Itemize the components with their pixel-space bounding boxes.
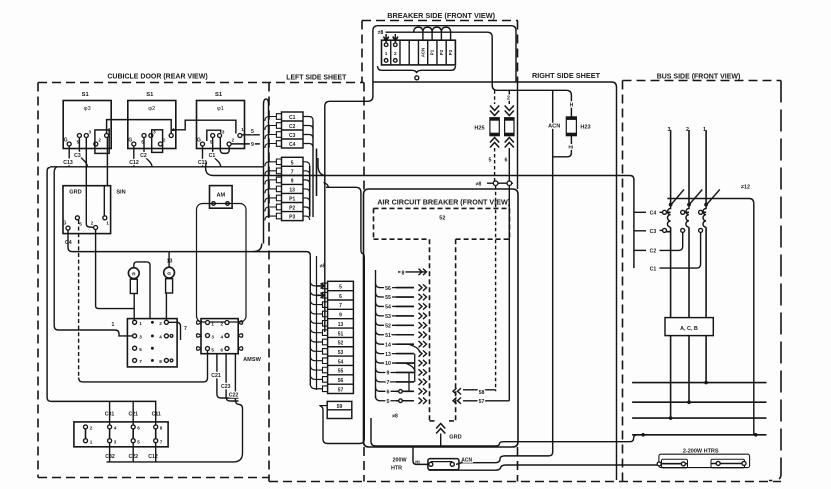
svg-text:2: 2 <box>159 321 162 326</box>
svg-text:1: 1 <box>112 322 115 328</box>
svg-text:S1: S1 <box>215 92 223 98</box>
wire #8 junction circles <box>487 181 513 186</box>
svg-text:≠8: ≠8 <box>378 30 384 36</box>
wire 56 into breaker <box>385 284 426 291</box>
CT coil phase 1 <box>703 203 708 318</box>
svg-text:2: 2 <box>163 138 166 143</box>
svg-text:C12: C12 <box>129 160 139 166</box>
svg-text:10: 10 <box>385 361 391 367</box>
svg-text:A, C, B: A, C, B <box>680 326 698 332</box>
svg-text:6: 6 <box>339 294 342 300</box>
svg-text:5: 5 <box>211 347 214 352</box>
svg-text:2: 2 <box>221 321 224 326</box>
wire C11 G lead to bus <box>202 146 204 167</box>
svg-text:H: H <box>570 103 574 109</box>
wire #8 bus parallel segment <box>316 256 318 390</box>
wire inside GRD box to terminal 2 <box>86 186 93 228</box>
svg-text:51: 51 <box>385 333 391 339</box>
lamp R <box>128 268 139 294</box>
internal jumper 14-13 arc <box>408 344 420 352</box>
label C1 tap and wire <box>650 233 701 273</box>
wire from GRD terminal 2 down <box>95 230 97 306</box>
svg-text:2: 2 <box>232 138 235 143</box>
svg-text:ACN: ACN <box>548 124 560 130</box>
number 8 bus vertical with fan to lower strip <box>310 256 322 389</box>
wire #12 riser down right side <box>753 204 755 435</box>
wire GRD G terminal down and right (lamp supply) <box>68 230 310 255</box>
wire 58 from right <box>453 388 496 396</box>
internal jumper 10-9 arc <box>405 363 415 371</box>
switch phi3 contact bridge box <box>95 130 109 154</box>
svg-text:3: 3 <box>668 127 671 133</box>
svg-text:BREAKER SIDE (FRONT VIEW): BREAKER SIDE (FRONT VIEW) <box>387 11 495 20</box>
wire ground return along ACB bottom <box>371 418 760 446</box>
svg-text:H25: H25 <box>474 126 484 132</box>
wire lamp R base to connector pin 1 <box>133 294 135 321</box>
svg-text:G: G <box>197 138 201 144</box>
svg-text:5: 5 <box>251 129 254 135</box>
wire 53 into breaker <box>385 313 426 320</box>
svg-text:C1: C1 <box>289 115 296 121</box>
svg-text:C2: C2 <box>140 153 147 159</box>
junction circle row 5 <box>399 399 403 403</box>
svg-text:14: 14 <box>385 342 391 348</box>
svg-text:7: 7 <box>184 326 187 332</box>
svg-text:P3: P3 <box>448 49 453 55</box>
svg-text:9: 9 <box>291 178 294 184</box>
connector block TB2 bottom <box>74 422 168 447</box>
svg-text:C12: C12 <box>148 454 158 460</box>
svg-text:2: 2 <box>686 127 689 133</box>
svg-text:13: 13 <box>289 188 295 194</box>
svg-text:6: 6 <box>137 426 140 431</box>
svg-text:C4: C4 <box>650 211 657 217</box>
arrow into lower strip cell 6 <box>317 293 325 298</box>
svg-text:CUBICLE DOOR (REAR VIEW): CUBICLE DOOR (REAR VIEW) <box>107 74 207 81</box>
svg-text:RIGHT SIDE SHEET: RIGHT SIDE SHEET <box>532 71 601 80</box>
svg-text:51: 51 <box>338 331 344 337</box>
wire 9 into breaker <box>387 369 427 376</box>
svg-text:3: 3 <box>211 334 214 339</box>
wires from TB2 bottom pins to lower bus <box>109 443 111 462</box>
wire 5 dashed down to 58 <box>495 186 497 391</box>
svg-text:G: G <box>63 220 67 226</box>
ground GRD arrows at stem bottom <box>436 424 462 447</box>
svg-text:52: 52 <box>338 341 344 347</box>
svg-text:5: 5 <box>339 285 342 291</box>
svg-text:S1: S1 <box>146 92 154 98</box>
meter AM box <box>210 186 233 209</box>
svg-text:7: 7 <box>139 359 142 364</box>
svg-text:φ1: φ1 <box>217 106 224 112</box>
wire outer loop breaker side <box>325 26 516 332</box>
wire 6 into breaker <box>387 388 427 395</box>
breaker 52 dashed outline with T stem <box>374 208 510 421</box>
terminal strip lower (5..57) <box>323 281 354 393</box>
connector block TB1 8-pin <box>127 319 177 367</box>
svg-text:P2: P2 <box>439 49 444 55</box>
wire 6 down to 57 <box>508 186 510 401</box>
svg-text:4: 4 <box>221 334 224 339</box>
wire C21 from AMSW <box>217 354 239 398</box>
boundary: breaker side dashed box top <box>362 21 518 83</box>
wire 1 into connector TB1 <box>54 167 132 336</box>
wire C22 from AMSW <box>107 354 243 462</box>
svg-text:H23: H23 <box>580 125 590 131</box>
svg-text:5: 5 <box>291 160 294 166</box>
svg-text:1: 1 <box>703 127 706 133</box>
svg-text:≠8: ≠8 <box>476 182 482 188</box>
wire #12 with diagonals to CT primaries <box>667 190 754 205</box>
svg-text:C23: C23 <box>221 384 231 390</box>
svg-text:9: 9 <box>339 313 342 319</box>
phase wire 2 <box>688 130 690 205</box>
CT tap circles <box>663 210 707 232</box>
wire 55 into breaker <box>385 294 426 301</box>
cubicle bus wire under switches <box>47 167 263 171</box>
wire 13 into breaker <box>385 350 426 357</box>
wire from phi3 terminal1 down to GRD box <box>106 138 108 186</box>
switch phi1 contact bridge <box>207 130 221 141</box>
svg-text:ACN: ACN <box>421 48 426 58</box>
svg-text:G: G <box>167 271 171 277</box>
svg-text:2: 2 <box>91 221 94 226</box>
wire 54 into breaker <box>385 303 426 310</box>
wire H and fuse H23 <box>553 103 577 157</box>
CT coil phase 3 <box>667 203 672 318</box>
svg-text:C4: C4 <box>289 142 296 148</box>
svg-text:C3: C3 <box>650 229 657 235</box>
svg-text:P3: P3 <box>289 215 295 221</box>
label C2 tap and wire <box>634 233 683 255</box>
svg-text:7: 7 <box>291 169 294 175</box>
svg-text:AIR CIRCUIT BREAKER (FRONT VIE: AIR CIRCUIT BREAKER (FRONT VIEW) <box>377 198 511 207</box>
wire C13 G lead to bus <box>68 146 70 167</box>
svg-text:56: 56 <box>385 286 391 292</box>
cubicle left riser wire <box>47 171 156 401</box>
wire C1 from switch to bus <box>213 138 221 167</box>
svg-text:1: 1 <box>385 51 388 57</box>
terminal strip C1-C4 <box>282 112 304 148</box>
svg-text:1: 1 <box>139 321 142 326</box>
switch S1 phi1 box <box>197 92 245 149</box>
brace under terminal block <box>378 66 456 73</box>
fuse H26 right with chevrons <box>505 106 514 182</box>
wire 7 into breaker <box>387 379 427 386</box>
wire lamp G top to supply bus <box>168 252 170 268</box>
svg-text:HI: HI <box>568 145 573 151</box>
svg-text:5: 5 <box>139 347 142 352</box>
wire C12 G lead to bus <box>133 146 135 167</box>
svg-text:57: 57 <box>338 387 344 393</box>
bus bar 4 ground return <box>632 434 766 436</box>
boundary: bottom dashed line <box>269 481 781 483</box>
svg-text:5: 5 <box>387 399 390 405</box>
svg-text:3: 3 <box>222 130 225 135</box>
wire C2 from switch to bus <box>144 138 152 167</box>
lamp G <box>164 267 175 293</box>
phase tails below ACB box <box>670 336 672 419</box>
phase wire 1 <box>705 130 707 205</box>
bus bar 3 <box>632 417 766 419</box>
svg-text:C21: C21 <box>211 373 221 379</box>
svg-text:2: 2 <box>507 96 510 102</box>
wire 51 into breaker <box>385 332 426 339</box>
wire heater bus to bus side heaters <box>429 465 660 470</box>
svg-text:C2: C2 <box>650 249 657 255</box>
svg-text:C22: C22 <box>229 393 239 399</box>
svg-text:6: 6 <box>387 390 390 396</box>
svg-text:9: 9 <box>251 142 254 148</box>
svg-text:53: 53 <box>338 350 344 356</box>
wire C23 from AMSW <box>226 354 238 401</box>
wire 7 from connector TB1 pin2 <box>168 322 180 340</box>
wire AMSW pin5 to wire5 run <box>83 351 208 382</box>
svg-text:AMSW: AMSW <box>243 357 261 363</box>
svg-text:5: 5 <box>137 439 140 444</box>
svg-text:≠12: ≠12 <box>741 185 750 191</box>
terminal strip 5-P3 <box>282 157 304 220</box>
svg-text:φ3: φ3 <box>84 106 91 112</box>
svg-text:GRD: GRD <box>69 190 81 196</box>
wire 5 from phi1 terminal1 to right rail <box>242 134 260 136</box>
svg-text:3: 3 <box>114 439 117 444</box>
wire HI lead <box>413 446 428 464</box>
svg-text:3: 3 <box>89 130 92 135</box>
wire 14 into breaker <box>385 341 426 348</box>
svg-text:2-200W HTRS: 2-200W HTRS <box>683 448 719 454</box>
hook arcs to cells ACN P1 P2 P3 <box>414 27 423 40</box>
bus bar 2 <box>632 401 766 403</box>
svg-text:C1: C1 <box>650 266 657 272</box>
label C3 tap and wire <box>634 229 663 235</box>
svg-text:φ2: φ2 <box>148 106 155 112</box>
boundary: left side sheet / ACB dashed verticals <box>364 21 518 482</box>
svg-text:4: 4 <box>114 426 117 431</box>
stair bus right of strips <box>303 117 317 221</box>
fuse H25 left with chevrons <box>490 90 499 181</box>
svg-text:GRD: GRD <box>449 435 461 441</box>
svg-text:9: 9 <box>387 371 390 377</box>
wire solid right edge upper <box>517 84 519 189</box>
svg-text:1: 1 <box>241 127 244 132</box>
svg-text:5: 5 <box>79 222 82 227</box>
internal jumper 13-7 <box>414 354 416 382</box>
svg-text:13: 13 <box>338 322 344 328</box>
svg-text:52: 52 <box>439 216 445 222</box>
heater element 200W <box>428 459 459 470</box>
svg-text:ACN: ACN <box>461 457 472 463</box>
svg-text:AM: AM <box>216 192 225 198</box>
svg-text:R: R <box>132 271 136 277</box>
svg-text:1: 1 <box>106 221 109 226</box>
arrow to terminal 1 <box>384 34 389 42</box>
svg-text:7: 7 <box>160 439 163 444</box>
wire bus number 8 over terminals <box>386 32 572 117</box>
svg-text:LEFT SIDE SHEET: LEFT SIDE SHEET <box>286 75 347 82</box>
svg-text:C1: C1 <box>209 153 216 159</box>
wire S1 phi3 terminal1 to phi2 terminal1 <box>107 120 172 134</box>
phase wire 3 <box>670 130 672 205</box>
svg-text:8: 8 <box>402 270 405 276</box>
arrow into lower strip cell 5 <box>317 283 325 288</box>
wire from strip bus up to long interconnect <box>318 158 326 176</box>
wire 57 from right <box>453 398 509 406</box>
svg-text:53: 53 <box>385 314 391 320</box>
svg-text:G: G <box>64 138 68 144</box>
svg-text:C13: C13 <box>63 160 73 166</box>
svg-text:55: 55 <box>338 369 344 375</box>
wire inside GRD box to terminal 1 <box>103 186 105 216</box>
svg-text:6: 6 <box>505 158 508 164</box>
svg-text:3: 3 <box>139 335 142 340</box>
svg-text:C3: C3 <box>74 153 81 159</box>
switch phi2 contact bridge box <box>152 130 163 153</box>
wire 10 into breaker <box>385 360 426 367</box>
svg-text:SIN: SIN <box>116 190 125 196</box>
wire C3 from switch to bus <box>79 138 87 167</box>
svg-text:2: 2 <box>90 426 93 431</box>
svg-text:HTR: HTR <box>391 466 402 472</box>
wire loop around lower strip <box>320 183 364 444</box>
wire main horizontal to right side sheet <box>373 82 617 480</box>
svg-text:54: 54 <box>338 359 344 365</box>
switch S1 phi3 box <box>63 92 111 149</box>
CT coil phase 2 <box>686 203 691 318</box>
svg-text:C3: C3 <box>289 133 296 139</box>
wire S1 phi2 terminal1 to phi1 terminal1 <box>173 120 236 133</box>
svg-text:58: 58 <box>479 390 485 396</box>
right rail loop from cubicle to strips <box>264 99 269 244</box>
svg-text:200W: 200W <box>392 458 407 464</box>
svg-text:54: 54 <box>385 305 391 311</box>
svg-text:S1: S1 <box>82 92 90 98</box>
boundary: bus side dashed box <box>623 81 782 482</box>
arrow to terminal 2 <box>393 34 398 42</box>
wire lamp G base to connector pin 2 <box>165 293 167 320</box>
wire 5 dashed from GRD to AMSW <box>78 220 80 378</box>
svg-text:C2: C2 <box>289 124 296 130</box>
CT secondary box A C B <box>665 318 713 336</box>
wire fan bus ACB left <box>376 270 415 401</box>
wire 2 to fuse H26 <box>508 90 510 104</box>
svg-text:2: 2 <box>98 138 101 143</box>
svg-text:1: 1 <box>211 321 214 326</box>
svg-text:P1: P1 <box>430 49 435 55</box>
svg-text:P2: P2 <box>289 206 295 212</box>
relay GRD box <box>63 186 111 234</box>
svg-text:G: G <box>128 138 132 144</box>
svg-text:P1: P1 <box>289 197 295 203</box>
switch AMSW block <box>197 319 243 354</box>
svg-text:7: 7 <box>387 380 390 386</box>
svg-text:BUS SIDE (FRONT VIEW): BUS SIDE (FRONT VIEW) <box>657 74 741 81</box>
svg-text:5: 5 <box>489 158 492 164</box>
heaters box 2-200W <box>657 454 749 468</box>
internal jumper 9-6 <box>408 372 410 391</box>
wire lamp R top loop <box>134 262 150 319</box>
svg-text:8: 8 <box>159 359 162 364</box>
svg-text:4: 4 <box>159 335 162 340</box>
svg-text:57: 57 <box>479 399 485 405</box>
svg-text:7: 7 <box>339 303 342 309</box>
junction circle row 6 <box>399 390 403 394</box>
svg-text:1: 1 <box>90 439 93 444</box>
switch S1 phi2 box <box>128 92 176 149</box>
svg-text:59: 59 <box>337 404 343 410</box>
long interconnect wire from C11 bus to bus side CT taps <box>206 162 634 269</box>
svg-text:2: 2 <box>394 51 397 57</box>
wire 9 from phi1 terminal2 to right rail <box>231 143 260 145</box>
left tabs and feeder arcs strips 1-2 <box>265 114 282 221</box>
wire from phi3 terminal3 down to GRD box <box>85 138 87 186</box>
svg-text:8: 8 <box>160 426 163 431</box>
wire 8 into breaker <box>398 271 426 273</box>
ACB outer box <box>364 189 519 447</box>
svg-text:6: 6 <box>221 347 224 352</box>
boundary: cubicle door dashed box <box>38 83 364 482</box>
svg-text:56: 56 <box>338 378 344 384</box>
terminal 59 box <box>319 401 352 418</box>
wire 52 into breaker <box>385 322 426 329</box>
svg-text:52: 52 <box>385 324 391 330</box>
bus bar 1 <box>632 382 766 384</box>
wire loop from AM down to AMSW <box>197 204 247 323</box>
svg-text:55: 55 <box>385 295 391 301</box>
svg-text:≠8: ≠8 <box>392 414 398 420</box>
wires from bus into TB2 top pins <box>109 401 111 425</box>
terminal block breaker side <box>382 40 456 65</box>
svg-text:13: 13 <box>385 352 391 358</box>
label C4 tap and wire <box>634 211 663 217</box>
wire 5 into breaker <box>387 398 427 405</box>
wire ACN vertical <box>459 90 553 462</box>
